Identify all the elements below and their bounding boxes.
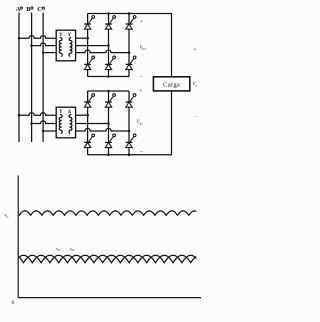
transformer T2 (Y-Delta) box [56, 107, 75, 138]
junction bridge2 bottom bus leg2 [107, 154, 110, 157]
thyristor Q12 [126, 134, 136, 148]
node C terminal [37, 6, 44, 13]
junction bridge1 top bus leg2 [107, 12, 110, 15]
svg-text:−: − [139, 74, 142, 80]
wire bridge2 positive bus [88, 90, 129, 92]
wire phase bus C [42, 13, 44, 143]
wire bridge2 leg3 [128, 91, 130, 155]
svg-text:Carga: Carga [163, 81, 180, 88]
thyristor Q4 [84, 56, 94, 70]
wire phase B tap to T1 [32, 43, 57, 46]
waveform vd2 (6-pulse ripple shifted) [6, 255, 217, 262]
junction bridge1 leg3 midpoint [128, 51, 131, 54]
thyristor Q11 [105, 134, 115, 148]
thyristor Q1 [84, 16, 94, 30]
junction phase B tap 2 [30, 122, 33, 125]
svg-text:−: − [140, 149, 143, 155]
junction bridge1 top bus leg3 [128, 12, 131, 15]
junction phase A tap 2 [18, 114, 21, 117]
junction bridge2 leg3 midpoint [128, 130, 131, 133]
wire phase A tap to T2 [19, 113, 56, 116]
junction bridge1 leg1 midpoint [86, 37, 89, 40]
T1 secondary winding Y [68, 33, 72, 57]
T1 primary winding Y [59, 33, 63, 57]
svg-text:Vd2: Vd2 [137, 120, 144, 125]
wire T2 to bridge2 leg1 [76, 114, 88, 116]
wire T1 to bridge1 leg2 [76, 45, 109, 47]
svg-text:0: 0 [11, 300, 14, 306]
junction bridge1 bottom bus leg2 [107, 75, 110, 78]
svg-text:Vd1: Vd1 [140, 46, 147, 51]
load (Carga) box [153, 77, 189, 91]
svg-text:Vo: Vo [192, 82, 197, 87]
plot x-axis [18, 297, 201, 299]
wire T2 to bridge2 leg2 [76, 123, 109, 125]
svg-text:C: C [37, 6, 42, 13]
thyristor Q2 [105, 16, 115, 30]
wire phase bus B [31, 13, 33, 143]
plot y-axis [17, 176, 19, 298]
thyristor Q5 [105, 56, 115, 70]
junction phase C tap 2 [42, 130, 45, 133]
svg-text:B: B [26, 6, 31, 13]
junction bridge2 bottom bus leg3 [128, 154, 131, 157]
T2 secondary winding Delta [68, 110, 72, 134]
junction phase A tap 1 [18, 37, 21, 40]
svg-text:−: − [194, 114, 197, 120]
wire T1 to bridge1 leg3 [76, 50, 129, 53]
thyristor Q9 [126, 94, 136, 108]
node A terminal [16, 6, 23, 13]
wire bridge1 leg1 [87, 14, 89, 77]
wire phase bus A [18, 13, 20, 143]
wire bridge2 leg2 [108, 91, 110, 155]
svg-text:vo: vo [4, 214, 8, 219]
thyristor Q3 [126, 16, 136, 30]
wire phase A tap to T1 [19, 36, 56, 39]
thyristor Q8 [105, 94, 115, 108]
wire phase B tap to T2 [32, 121, 57, 124]
junction phase C tap 1 [42, 51, 45, 54]
node B terminal [26, 6, 33, 13]
T2 primary winding Y [59, 110, 63, 134]
junction bridge2 leg1 midpoint [86, 114, 89, 117]
wire phase C tap to T1 [43, 52, 56, 54]
svg-text:A: A [16, 6, 21, 13]
wire bridge2 leg1 [87, 91, 89, 155]
junction bridge2 top bus leg2 [107, 90, 110, 93]
wire bridge1 leg3 [128, 14, 130, 77]
junction bridge2 leg2 midpoint [107, 122, 110, 125]
svg-text:+: + [139, 88, 142, 94]
wire T1 to bridge1 leg1 [76, 37, 88, 39]
junction phase B tap 1 [30, 44, 33, 47]
thyristor Q10 [84, 134, 94, 148]
waveform vo (12-pulse ripple) [8, 211, 200, 215]
wire T2 to bridge2 leg3 [76, 128, 129, 131]
wire bridge1 negative bus [88, 76, 129, 78]
junction bridge1 leg2 midpoint [107, 44, 110, 47]
transformer T1 (Y-Y) box [56, 30, 75, 61]
wire bridge2 negative bus to load return [88, 91, 172, 155]
wire bridge1 leg2 [108, 14, 110, 77]
waveform vd1 (6-pulse ripple) [0, 255, 208, 262]
wire bridge1 positive bus to load [88, 14, 172, 77]
thyristor Q7 [84, 94, 94, 108]
thyristor Q6 [126, 56, 136, 70]
wire phase C tap to T2 [43, 130, 56, 132]
svg-text:+: + [140, 19, 143, 25]
svg-text:+: + [193, 47, 196, 53]
